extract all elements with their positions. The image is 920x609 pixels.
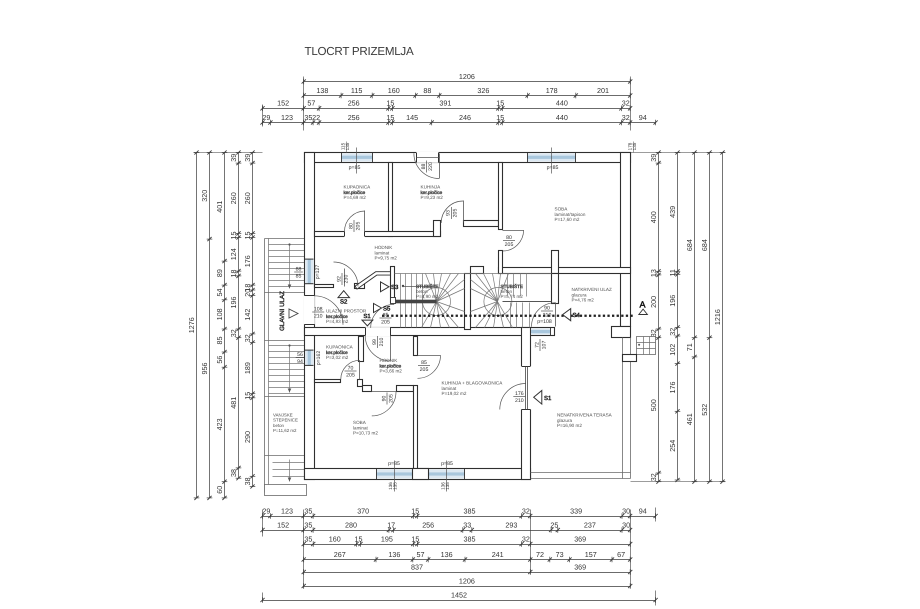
svg-text:684: 684 (685, 239, 694, 251)
svg-text:S1: S1 (544, 395, 552, 402)
svg-text:P=19,02 m2: P=19,02 m2 (442, 391, 467, 396)
svg-text:15: 15 (243, 232, 252, 240)
svg-text:p=85: p=85 (441, 461, 453, 467)
svg-text:38: 38 (229, 469, 238, 477)
svg-text:176: 176 (668, 382, 677, 394)
svg-text:401: 401 (215, 201, 224, 213)
svg-text:280: 280 (345, 520, 357, 529)
svg-text:35: 35 (304, 534, 312, 543)
svg-text:481: 481 (229, 397, 238, 409)
svg-text:13: 13 (649, 269, 658, 277)
svg-text:400: 400 (649, 211, 658, 223)
svg-text:94: 94 (639, 113, 647, 122)
svg-text:KUPAONICA: KUPAONICA (344, 185, 372, 190)
svg-text:85: 85 (215, 337, 224, 345)
svg-text:glazura: glazura (572, 292, 588, 297)
svg-text:32: 32 (243, 334, 252, 342)
svg-text:38: 38 (243, 477, 252, 485)
svg-text:237: 237 (584, 520, 596, 529)
svg-text:A: A (639, 300, 645, 310)
svg-text:60: 60 (215, 486, 224, 494)
svg-text:123: 123 (281, 113, 293, 122)
svg-text:P=16,90 m2: P=16,90 m2 (557, 423, 582, 428)
svg-text:p=85: p=85 (388, 461, 400, 467)
svg-text:15: 15 (411, 534, 419, 543)
svg-text:152: 152 (277, 99, 289, 108)
svg-text:S3: S3 (391, 284, 399, 291)
svg-text:1216: 1216 (713, 309, 722, 325)
svg-text:22: 22 (312, 113, 320, 122)
svg-text:152: 152 (277, 520, 289, 529)
svg-text:TLOCRT PRIZEMLJA: TLOCRT PRIZEMLJA (305, 45, 414, 58)
svg-text:80: 80 (506, 235, 512, 241)
svg-text:369: 369 (574, 534, 586, 543)
svg-text:p=127: p=127 (315, 265, 321, 280)
svg-text:189: 189 (243, 362, 252, 374)
svg-text:385: 385 (464, 506, 476, 515)
svg-text:369: 369 (574, 562, 586, 571)
svg-text:260: 260 (243, 192, 252, 204)
svg-text:196: 196 (229, 297, 238, 309)
svg-text:440: 440 (556, 113, 568, 122)
svg-text:32: 32 (522, 506, 530, 515)
svg-text:176: 176 (243, 255, 252, 267)
svg-text:532: 532 (700, 404, 709, 416)
svg-text:210: 210 (379, 338, 385, 347)
svg-text:123: 123 (281, 506, 293, 515)
svg-text:440: 440 (556, 99, 568, 108)
svg-text:339: 339 (570, 506, 582, 515)
svg-text:laminat: laminat (353, 425, 369, 430)
svg-text:439: 439 (668, 206, 677, 218)
svg-text:135: 135 (345, 142, 350, 150)
svg-text:196: 196 (668, 295, 677, 307)
svg-text:HODNIK: HODNIK (380, 358, 399, 363)
svg-text:32: 32 (622, 113, 630, 122)
svg-text:92: 92 (336, 276, 342, 282)
svg-text:20: 20 (243, 289, 252, 297)
svg-text:15: 15 (243, 392, 252, 400)
svg-text:NENATKRIVENA TERASA: NENATKRIVENA TERASA (557, 413, 613, 418)
svg-text:205: 205 (453, 209, 459, 218)
svg-text:85: 85 (421, 360, 427, 366)
svg-text:210: 210 (543, 312, 552, 318)
svg-text:210: 210 (314, 313, 323, 319)
svg-text:71: 71 (685, 343, 694, 351)
svg-text:72: 72 (534, 342, 540, 348)
svg-text:25: 25 (550, 520, 558, 529)
svg-text:205: 205 (420, 367, 429, 373)
svg-text:85: 85 (383, 312, 389, 318)
svg-text:107: 107 (541, 341, 547, 350)
svg-text:1206: 1206 (459, 576, 475, 585)
svg-text:326: 326 (477, 86, 489, 95)
svg-text:201: 201 (597, 86, 609, 95)
svg-text:500: 500 (649, 399, 658, 411)
svg-text:S4: S4 (573, 312, 581, 319)
svg-text:32: 32 (229, 329, 238, 337)
svg-text:461: 461 (685, 413, 694, 425)
svg-text:1276: 1276 (187, 317, 196, 333)
svg-text:176: 176 (515, 391, 524, 397)
svg-text:15: 15 (411, 506, 419, 515)
svg-text:102: 102 (668, 344, 677, 356)
svg-text:HODNIK: HODNIK (375, 245, 394, 250)
svg-text:200: 200 (649, 296, 658, 308)
svg-text:P=5,74 m2: P=5,74 m2 (501, 294, 524, 299)
svg-text:laminat: laminat (442, 386, 458, 391)
svg-text:33: 33 (463, 520, 471, 529)
svg-text:15: 15 (355, 534, 363, 543)
svg-text:94: 94 (639, 506, 647, 515)
svg-text:NATKRIVENI ULAZ: NATKRIVENI ULAZ (572, 287, 612, 292)
svg-text:P=9,23 m2: P=9,23 m2 (421, 195, 444, 200)
svg-text:11: 11 (668, 269, 677, 276)
svg-text:142: 142 (243, 309, 252, 321)
svg-text:p=108: p=108 (537, 319, 552, 325)
svg-text:laminat: laminat (375, 250, 391, 255)
svg-text:67: 67 (617, 550, 625, 559)
svg-text:S1: S1 (363, 313, 371, 320)
svg-text:89: 89 (215, 269, 224, 277)
svg-text:KUHINJA + BLAGOVAONICA: KUHINJA + BLAGOVAONICA (442, 381, 504, 386)
svg-text:88: 88 (421, 164, 427, 170)
svg-text:1206: 1206 (459, 72, 475, 81)
svg-text:ker.pločice: ker.pločice (326, 314, 348, 319)
svg-text:35: 35 (304, 520, 312, 529)
svg-text:29: 29 (262, 506, 270, 515)
svg-text:15: 15 (229, 232, 238, 240)
svg-text:57: 57 (307, 99, 315, 108)
svg-text:124: 124 (229, 248, 238, 260)
svg-text:260: 260 (229, 192, 238, 204)
svg-text:178: 178 (546, 86, 558, 95)
svg-text:90: 90 (381, 396, 387, 402)
svg-text:32: 32 (522, 534, 530, 543)
svg-text:SOBA: SOBA (353, 420, 367, 425)
svg-text:293: 293 (505, 520, 517, 529)
svg-text:837: 837 (411, 562, 423, 571)
svg-text:SOBA: SOBA (555, 207, 569, 212)
svg-text:205: 205 (355, 222, 361, 231)
svg-text:39: 39 (243, 154, 252, 162)
svg-text:210: 210 (515, 398, 524, 404)
svg-text:P=4,83 m2: P=4,83 m2 (326, 319, 349, 324)
svg-text:73: 73 (556, 550, 564, 559)
svg-text:P=4,76 m2: P=4,76 m2 (572, 298, 595, 303)
svg-text:56: 56 (297, 352, 303, 358)
svg-text:30: 30 (622, 506, 630, 515)
svg-text:18: 18 (229, 270, 238, 278)
svg-text:256: 256 (422, 520, 434, 529)
svg-text:85: 85 (296, 273, 302, 279)
svg-text:205: 205 (381, 319, 390, 325)
svg-text:72: 72 (536, 550, 544, 559)
svg-text:32: 32 (649, 473, 658, 481)
svg-text:205: 205 (346, 372, 355, 378)
svg-text:32: 32 (622, 99, 630, 108)
svg-text:ker.pločice: ker.pločice (326, 350, 348, 355)
svg-text:glazura: glazura (557, 418, 573, 423)
svg-text:39: 39 (649, 154, 658, 162)
svg-text:195: 195 (381, 534, 393, 543)
svg-text:230: 230 (343, 275, 349, 284)
svg-text:136: 136 (388, 550, 400, 559)
svg-text:157: 157 (585, 550, 597, 559)
svg-text:GLAVNI ULAZ: GLAVNI ULAZ (279, 291, 286, 331)
svg-text:54: 54 (215, 289, 224, 297)
svg-text:115: 115 (351, 86, 362, 95)
svg-text:205: 205 (388, 394, 394, 403)
svg-text:p=162: p=162 (316, 351, 322, 366)
svg-text:320: 320 (200, 190, 209, 202)
svg-text:220: 220 (428, 162, 434, 171)
svg-text:370: 370 (357, 506, 369, 515)
svg-text:KUHINJA: KUHINJA (421, 185, 442, 190)
svg-text:99: 99 (372, 339, 378, 345)
svg-text:35: 35 (304, 506, 312, 515)
svg-text:15: 15 (496, 113, 504, 122)
svg-text:S2: S2 (340, 298, 348, 305)
svg-text:56: 56 (215, 356, 224, 364)
svg-text:135: 135 (632, 142, 637, 150)
svg-text:ker.pločice: ker.pločice (421, 190, 443, 195)
svg-text:p=85: p=85 (547, 165, 559, 171)
svg-text:KUPAONICA: KUPAONICA (326, 345, 354, 350)
svg-text:P=4,69 m2: P=4,69 m2 (344, 195, 367, 200)
svg-text:90: 90 (544, 305, 550, 311)
svg-text:88: 88 (296, 266, 302, 272)
svg-text:p=85: p=85 (349, 165, 361, 171)
svg-text:290: 290 (243, 431, 252, 443)
svg-text:88: 88 (423, 86, 431, 95)
svg-text:P=3,02 m2: P=3,02 m2 (326, 355, 349, 360)
svg-text:254: 254 (668, 440, 677, 452)
svg-text:205: 205 (505, 242, 514, 248)
svg-text:108: 108 (215, 308, 224, 320)
svg-text:108: 108 (314, 306, 323, 312)
svg-text:246: 246 (459, 113, 471, 122)
svg-text:135: 135 (393, 482, 398, 490)
svg-text:57: 57 (417, 550, 425, 559)
svg-text:15: 15 (496, 99, 504, 108)
svg-text:93: 93 (446, 210, 452, 216)
svg-text:684: 684 (700, 239, 709, 251)
svg-text:ULAZNI PROSTOR: ULAZNI PROSTOR (326, 309, 367, 314)
svg-text:32: 32 (668, 328, 677, 336)
svg-text:256: 256 (348, 99, 360, 108)
svg-text:P=4,90 m2: P=4,90 m2 (416, 294, 439, 299)
svg-text:135: 135 (445, 482, 450, 490)
svg-text:241: 241 (492, 550, 504, 559)
svg-text:15: 15 (386, 99, 394, 108)
svg-text:145: 145 (406, 113, 418, 122)
svg-text:P=3,66 m2: P=3,66 m2 (380, 369, 403, 374)
svg-text:80: 80 (348, 223, 354, 229)
svg-text:30: 30 (622, 520, 630, 529)
svg-text:P=11,62 m2: P=11,62 m2 (273, 428, 297, 433)
svg-text:29: 29 (262, 113, 270, 122)
svg-text:15: 15 (386, 113, 394, 122)
svg-text:391: 391 (439, 99, 451, 108)
svg-text:385: 385 (464, 534, 476, 543)
svg-text:39: 39 (229, 154, 238, 162)
svg-text:P=10,73 m2: P=10,73 m2 (353, 431, 378, 436)
svg-text:laminat/tapison: laminat/tapison (555, 212, 586, 217)
svg-text:P=17,60 m2: P=17,60 m2 (555, 217, 580, 222)
svg-text:423: 423 (215, 418, 224, 430)
svg-text:70: 70 (348, 365, 354, 371)
svg-text:267: 267 (334, 550, 346, 559)
svg-text:256: 256 (348, 113, 360, 122)
svg-text:94: 94 (297, 359, 303, 365)
svg-text:160: 160 (388, 86, 400, 95)
svg-text:1452: 1452 (451, 590, 467, 599)
svg-text:956: 956 (200, 363, 209, 375)
svg-text:ker.pločice: ker.pločice (380, 363, 402, 368)
svg-text:17: 17 (387, 520, 395, 529)
svg-text:138: 138 (316, 86, 328, 95)
svg-text:P=9,75 m2: P=9,75 m2 (375, 256, 398, 261)
svg-text:32: 32 (649, 329, 658, 337)
svg-text:ker.pločice: ker.pločice (344, 190, 366, 195)
svg-text:160: 160 (329, 534, 341, 543)
svg-text:136: 136 (441, 550, 453, 559)
